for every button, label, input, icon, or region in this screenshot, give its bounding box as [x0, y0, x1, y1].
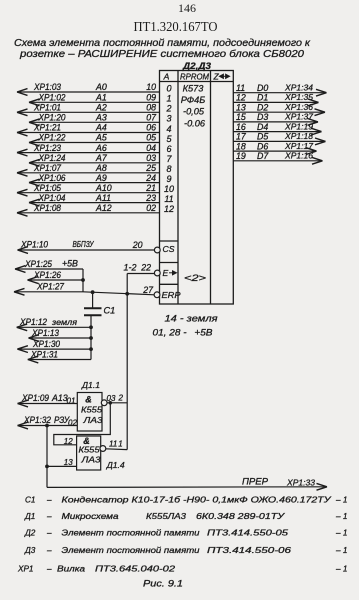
- svg-text:16: 16: [236, 122, 246, 132]
- svg-text:XP1:07: XP1:07: [33, 163, 62, 173]
- svg-text:14 - земля: 14 - земля: [165, 314, 218, 324]
- ground bus junction: [89, 347, 93, 351]
- svg-text:<2>: <2>: [184, 273, 207, 284]
- svg-text:24: 24: [145, 173, 156, 183]
- junction dot C1 tap: [91, 290, 95, 294]
- svg-text:XP1:06: XP1:06: [38, 173, 66, 183]
- wire RZU (XP1:32, pin 02): [18, 415, 78, 429]
- svg-text:ПТ1.320.167ТО: ПТ1.320.167ТО: [134, 19, 218, 34]
- svg-text:ПРЕР: ПРЕР: [242, 477, 268, 487]
- svg-text:2: 2: [118, 394, 124, 403]
- junction RZU tap: [45, 424, 49, 428]
- vertical wire E to jumper contacts 2 and 1: [126, 274, 128, 450]
- svg-text:15: 15: [236, 112, 246, 122]
- wire XP1:27: [14, 282, 83, 296]
- wire A8 (XP1:07, pin 25): [17, 163, 172, 176]
- svg-text:XP1:09: XP1:09: [21, 393, 49, 403]
- svg-text:Д1.1: Д1.1: [81, 380, 100, 390]
- svg-text:XP1:36: XP1:36: [284, 102, 313, 112]
- svg-text:ERP: ERP: [162, 290, 181, 300]
- svg-text:XP1:32: XP1:32: [23, 415, 51, 425]
- junction E vertical x ERP wire: [125, 292, 129, 296]
- svg-text:К555ЛА3: К555ЛА3: [146, 512, 187, 521]
- svg-text:XP1:20: XP1:20: [38, 113, 66, 123]
- svg-text:XP1:10: XP1:10: [20, 240, 48, 250]
- svg-text:земля: земля: [51, 317, 77, 327]
- svg-text:XP1:22: XP1:22: [38, 133, 66, 143]
- svg-text:E: E: [163, 268, 169, 278]
- svg-text:-0,05: -0,05: [183, 107, 205, 117]
- svg-text:– 1: – 1: [335, 512, 347, 521]
- svg-text:–: –: [46, 529, 52, 538]
- svg-text:ПТ3.414.550-06: ПТ3.414.550-06: [207, 546, 292, 555]
- svg-text:– 1: – 1: [335, 496, 347, 505]
- wire D1.1 output (pin 03, jumper contact 2): [107, 394, 128, 404]
- svg-text:A5: A5: [95, 133, 107, 143]
- svg-text:RPROM: RPROM: [180, 71, 210, 81]
- wire D2 (pin 13, XP1:36): [233, 102, 325, 116]
- svg-text:ХР1: ХР1: [17, 565, 33, 574]
- wire A5 (XP1:22, pin 05): [29, 133, 172, 146]
- svg-text:D2: D2: [257, 102, 268, 112]
- svg-text:XP1:01: XP1:01: [33, 103, 61, 113]
- svg-text:ЛА3: ЛА3: [80, 455, 101, 465]
- wire D1.4 output (pin 11, jumper contact 1): [106, 439, 128, 449]
- svg-text:ЛА3: ЛА3: [82, 415, 103, 425]
- ground bus junction: [89, 336, 93, 340]
- svg-text:8: 8: [166, 164, 171, 174]
- parts list row D3: [24, 546, 347, 555]
- svg-text:18: 18: [236, 141, 246, 151]
- svg-text:Д1: Д1: [24, 512, 35, 521]
- wire XP1:12 ground: [17, 317, 91, 331]
- junction on output wire: [109, 401, 113, 405]
- svg-text:XP1:30: XP1:30: [32, 339, 60, 349]
- svg-text:К573: К573: [183, 84, 205, 94]
- svg-text:ПТ3.414.550-05: ПТ3.414.550-05: [207, 529, 289, 538]
- svg-text:XP1:04: XP1:04: [38, 193, 66, 203]
- svg-text:XP1:08: XP1:08: [33, 203, 61, 213]
- svg-text:6К0.348 289-01ТУ: 6К0.348 289-01ТУ: [196, 512, 285, 521]
- svg-text:A2: A2: [95, 103, 107, 113]
- svg-text:ВБПЗУ: ВБПЗУ: [73, 239, 95, 249]
- svg-text:XP1:21: XP1:21: [33, 123, 61, 133]
- wire A3 (XP1:20, pin 07): [29, 113, 172, 126]
- svg-text:A3: A3: [95, 113, 107, 123]
- svg-text:01: 01: [67, 397, 76, 406]
- svg-text:XP1:17: XP1:17: [284, 141, 314, 151]
- ROM header labels A / RPROM / Z: [163, 71, 220, 81]
- svg-text:XP1:19: XP1:19: [284, 121, 313, 131]
- svg-text:A4: A4: [95, 123, 107, 133]
- svg-text:12: 12: [236, 93, 246, 103]
- svg-text:XP1:31: XP1:31: [30, 349, 58, 359]
- svg-text:11: 11: [109, 440, 117, 449]
- svg-text:С1: С1: [104, 306, 116, 316]
- svg-text:A13: A13: [51, 393, 68, 403]
- wire A11 (XP1:04, pin 23): [29, 193, 174, 206]
- gate D1.1 (NAND): [77, 393, 103, 432]
- svg-text:A12: A12: [95, 203, 112, 213]
- wire +5V bus to pin ERP (27): [83, 285, 154, 295]
- svg-text:XP1:05: XP1:05: [33, 183, 61, 193]
- wire VBPZU (XP1:10, pin 20): [18, 239, 155, 254]
- E inversion bubble: [154, 270, 160, 276]
- svg-text:–: –: [46, 512, 52, 521]
- ROM type value labels: [181, 84, 206, 129]
- svg-text:21: 21: [145, 183, 156, 193]
- svg-text:РФ4Б: РФ4Б: [181, 95, 205, 105]
- svg-text:Z: Z: [213, 72, 220, 82]
- svg-text:23: 23: [145, 193, 156, 203]
- svg-text:A10: A10: [95, 183, 112, 193]
- svg-text:146: 146: [178, 1, 196, 15]
- svg-text:12: 12: [164, 204, 174, 214]
- wire D6 (pin 18, XP1:17): [233, 141, 316, 155]
- svg-text:XP1:16: XP1:16: [284, 151, 313, 161]
- svg-text:22: 22: [140, 263, 151, 273]
- svg-text:+5В: +5В: [62, 259, 78, 269]
- D1.4 output inversion bubble: [100, 446, 106, 452]
- svg-text:Микросхема: Микросхема: [62, 512, 120, 521]
- svg-text:XP1:12: XP1:12: [19, 317, 47, 327]
- svg-text:Конденсатор К10-17-1б -Н90- 0: Конденсатор К10-17-1б -Н90- 0,1мкФ ОЖО.4…: [62, 496, 332, 505]
- svg-text:XP1:25: XP1:25: [24, 259, 52, 269]
- svg-text:XP1:24: XP1:24: [38, 153, 66, 163]
- wire A9 (XP1:06, pin 24): [29, 173, 172, 186]
- svg-text:XP1:35: XP1:35: [284, 92, 313, 102]
- svg-text:01, 28 - +5В: 01, 28 - +5В: [153, 328, 213, 338]
- svg-text:Д1.4: Д1.4: [106, 460, 125, 470]
- gate D1.4 (NAND): [77, 436, 101, 470]
- svg-text:Элемент постоянной памяти: Элемент постоянной памяти: [62, 529, 201, 538]
- svg-text:D6: D6: [257, 141, 268, 151]
- svg-text:02: 02: [68, 418, 77, 427]
- ground bus vertical: [90, 327, 92, 359]
- wire A0 (XP1:03, pin 10): [17, 82, 172, 95]
- svg-text:2: 2: [165, 104, 171, 114]
- svg-text:CS: CS: [163, 244, 175, 254]
- svg-text:D4: D4: [257, 122, 268, 132]
- svg-text:A8: A8: [95, 163, 107, 173]
- svg-text:A7: A7: [95, 153, 108, 163]
- svg-text:XP1:34: XP1:34: [284, 83, 313, 93]
- svg-text:A9: A9: [95, 173, 107, 183]
- svg-text:0: 0: [166, 83, 171, 93]
- svg-text:–: –: [46, 565, 52, 574]
- pin zone dividers CS/E/ERP: [160, 241, 179, 284]
- svg-text:D7: D7: [257, 151, 269, 161]
- svg-text:Д2,Д3: Д2,Д3: [182, 61, 211, 71]
- svg-text:XP1:26: XP1:26: [33, 270, 61, 280]
- wire D4 (pin 16, XP1:19): [233, 121, 321, 135]
- svg-text:– 1: – 1: [335, 546, 347, 555]
- svg-text:A: A: [163, 72, 170, 82]
- svg-text:XP1:23: XP1:23: [33, 143, 61, 153]
- svg-text:09: 09: [146, 93, 156, 103]
- svg-text:A0: A0: [95, 82, 107, 92]
- vertical wire RZU to pin13 to PRER: [46, 426, 48, 488]
- svg-text:11: 11: [164, 194, 173, 204]
- svg-text:&: &: [85, 395, 92, 405]
- wire D5 (pin 17, XP1:18): [233, 131, 325, 145]
- svg-text:Д2: Д2: [24, 529, 36, 538]
- wire XP1:25 +5V: [15, 259, 83, 273]
- junction on +5V bus: [81, 278, 85, 282]
- svg-text:Вилка: Вилка: [57, 565, 86, 574]
- svg-text:XP1:33: XP1:33: [286, 478, 315, 488]
- D1.1 output inversion bubble: [101, 400, 107, 406]
- parts list row C1: [25, 496, 347, 505]
- svg-text:4: 4: [166, 124, 171, 134]
- svg-text:– 1: – 1: [335, 565, 347, 574]
- wire XP1:26: [28, 270, 84, 283]
- svg-text:3: 3: [166, 114, 171, 124]
- CS inversion bubble: [154, 247, 160, 253]
- svg-text:XP1:18: XP1:18: [284, 131, 313, 141]
- wire D0 (pin 11, XP1:34): [233, 83, 326, 97]
- parts list row D1: [24, 512, 347, 521]
- ERP inversion bubble: [154, 292, 160, 298]
- svg-text:03: 03: [146, 153, 156, 163]
- svg-text:Рис. 9.1: Рис. 9.1: [143, 579, 183, 589]
- svg-text:13: 13: [236, 102, 246, 112]
- svg-text:12: 12: [64, 437, 73, 446]
- svg-text:К555: К555: [79, 445, 100, 455]
- wire A6 (XP1:23, pin 04): [17, 143, 172, 156]
- svg-text:D5: D5: [257, 132, 268, 142]
- svg-text:06: 06: [146, 123, 156, 133]
- svg-text:XP1:27: XP1:27: [36, 282, 65, 292]
- svg-text:D3: D3: [257, 112, 268, 122]
- capacitor C1: [84, 292, 115, 327]
- wire hairpin to pin 12: [54, 403, 111, 446]
- wire to pin E (jumper 1-2, pin 22): [124, 263, 155, 274]
- svg-text:XP1:02: XP1:02: [38, 93, 66, 103]
- wire A12 (XP1:08, pin 02): [17, 203, 174, 216]
- svg-text:A11: A11: [95, 193, 111, 203]
- svg-text:10: 10: [146, 82, 156, 92]
- wire XP1:13 ground: [29, 328, 92, 342]
- svg-text:1-2: 1-2: [124, 263, 137, 273]
- svg-text:05: 05: [146, 133, 156, 143]
- svg-text:D0: D0: [257, 83, 268, 93]
- wire XP1:30 ground: [17, 339, 91, 353]
- svg-text:10: 10: [164, 184, 174, 194]
- svg-text:9: 9: [166, 174, 171, 184]
- ground bus junction: [89, 325, 93, 329]
- svg-text:–: –: [46, 546, 52, 555]
- svg-text:07: 07: [146, 113, 157, 123]
- svg-text:02: 02: [146, 203, 156, 213]
- wire PRER (XP1:33): [47, 477, 327, 491]
- svg-text:17: 17: [236, 132, 247, 142]
- svg-text:–: –: [46, 496, 52, 505]
- wire A1 (XP1:02, pin 09): [29, 93, 172, 106]
- svg-text:Д3: Д3: [24, 546, 36, 555]
- wire D7 (pin 19, XP1:16): [233, 151, 322, 165]
- svg-text:XP1:03: XP1:03: [33, 82, 61, 92]
- svg-text:27: 27: [142, 285, 154, 295]
- junction pin13 tap: [45, 465, 49, 469]
- wire D3 (pin 15, XP1:37): [233, 112, 318, 126]
- wire A13 (XP1:09, pin 01): [18, 393, 78, 407]
- svg-text:ПТ3.645.040-02: ПТ3.645.040-02: [95, 565, 176, 574]
- svg-text:04: 04: [146, 143, 156, 153]
- wire A7 (XP1:24, pin 03): [29, 153, 172, 166]
- ROM D2/D3 body outline: [160, 71, 234, 305]
- svg-text:С1: С1: [25, 496, 35, 505]
- svg-text:К555: К555: [81, 405, 102, 415]
- svg-text:25: 25: [145, 163, 156, 173]
- svg-text:1: 1: [166, 94, 171, 104]
- svg-text:-0.06: -0.06: [184, 119, 206, 129]
- bidirectional arrow of Z header: [219, 74, 229, 78]
- svg-text:20: 20: [132, 240, 143, 250]
- svg-text:11: 11: [236, 83, 245, 93]
- svg-text:6: 6: [166, 144, 171, 154]
- wire A10 (XP1:05, pin 21): [17, 183, 174, 196]
- wire pin 13: [47, 458, 77, 467]
- svg-text:XP1:37: XP1:37: [284, 112, 314, 122]
- svg-text:– 1: – 1: [335, 529, 347, 538]
- wire D1 (pin 12, XP1:35): [233, 92, 318, 106]
- svg-text:A1: A1: [95, 93, 107, 103]
- parts list row D2: [24, 529, 347, 538]
- svg-text:Схема элемента постоянной памя: Схема элемента постоянной памяти, подсое…: [14, 38, 310, 49]
- +5V bus vertical: [82, 269, 84, 292]
- svg-text:08: 08: [146, 103, 156, 113]
- parts list row XP1: [17, 565, 347, 574]
- svg-text:Элемент постоянной памяти: Элемент постоянной памяти: [62, 546, 201, 555]
- svg-text:19: 19: [236, 151, 246, 161]
- svg-text:1: 1: [118, 439, 122, 448]
- wire A2 (XP1:01, pin 08): [17, 103, 172, 116]
- wire A4 (XP1:21, pin 06): [17, 123, 172, 136]
- svg-text:13: 13: [64, 458, 73, 467]
- svg-text:A6: A6: [95, 143, 107, 153]
- svg-text:D1: D1: [257, 93, 268, 103]
- svg-text:XP1:13: XP1:13: [31, 328, 59, 338]
- wire XP1:31 ground: [28, 349, 91, 363]
- svg-text:розетке – РАСШИРЕНИЕ системног: розетке – РАСШИРЕНИЕ системного блока СБ…: [19, 49, 305, 60]
